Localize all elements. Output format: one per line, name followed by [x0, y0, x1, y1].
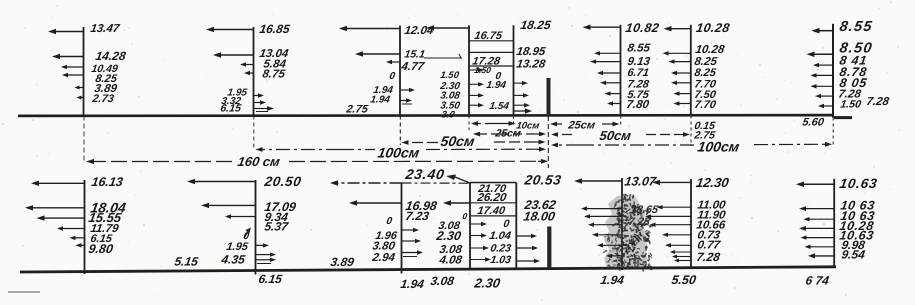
svg-text:7.28: 7.28 [628, 216, 652, 228]
station P4 top right vertical [513, 25, 515, 126]
station P4 top box lines [469, 41, 514, 66]
station P6 top velocity arrows [663, 26, 691, 106]
svg-text:4.08: 4.08 [438, 255, 464, 267]
station P4 bottom top arrow [446, 175, 470, 184]
station P3 bottom vertical [401, 183, 403, 274]
station P2 bottom value labels [174, 174, 303, 268]
svg-text:10.63: 10.63 [839, 176, 879, 191]
svg-text:0.23: 0.23 [490, 243, 512, 255]
dimension 50cm left [402, 133, 546, 149]
station P5 bottom value labels [624, 175, 660, 228]
station P3 bottom velocity arrows [330, 180, 423, 256]
station P1 top vertical [83, 27, 86, 163]
svg-text:50cм: 50cм [440, 133, 477, 149]
station P2 top velocity arrows [206, 27, 274, 112]
station P2 bottom vertical [255, 180, 257, 275]
station P3 top vertical [399, 26, 401, 146]
station P6 bottom value labels [695, 175, 731, 264]
svg-text:2.73: 2.73 [91, 93, 116, 105]
svg-text:1.95: 1.95 [226, 241, 250, 253]
dimension 50cm right [551, 128, 690, 143]
dimension 10cm [471, 120, 540, 131]
svg-text:1.04: 1.04 [489, 230, 512, 242]
svg-text:3.08: 3.08 [430, 274, 456, 288]
svg-text:2.94: 2.94 [371, 252, 397, 264]
station P4 top inner labels [472, 30, 504, 67]
station P3 top value labels [345, 25, 435, 115]
station P4 top left stack labels [439, 70, 462, 120]
svg-text:7.70: 7.70 [694, 99, 718, 111]
svg-text:10.28: 10.28 [695, 44, 726, 56]
station P4 top small arrows right line [514, 81, 533, 114]
svg-text:5.15: 5.15 [174, 255, 200, 269]
station P7 bottom vertical [833, 179, 835, 268]
svg-text:18.00: 18.00 [523, 210, 556, 224]
svg-text:18.65: 18.65 [630, 204, 660, 216]
station P4 bottom inner small arrows [470, 222, 491, 262]
svg-text:160 cм: 160 cм [237, 154, 282, 169]
station P7 bottom velocity arrows [796, 182, 834, 259]
station P5 bottom vertical [621, 178, 623, 270]
svg-text:8.55: 8.55 [838, 19, 874, 35]
svg-text:3.80: 3.80 [372, 241, 397, 253]
station P3 bottom value labels [330, 166, 469, 269]
svg-text:6.15: 6.15 [258, 272, 284, 286]
svg-text:20.53: 20.53 [523, 173, 563, 188]
wall top extension [547, 116, 549, 168]
svg-text:3.89: 3.89 [330, 255, 356, 269]
svg-text:1.94: 1.94 [400, 277, 426, 291]
svg-text:1.50: 1.50 [440, 70, 461, 81]
station P2 top value labels [220, 22, 291, 114]
station P5 bottom velocity arrows [574, 178, 622, 258]
dimension 100cm left [256, 145, 547, 161]
station P5 top value labels [625, 21, 661, 111]
station P4 bottom base labels [430, 274, 502, 290]
dimension 25cm right [550, 120, 620, 132]
station P3-P4 bottom connector line [402, 182, 471, 184]
station P5 top vertical [620, 25, 622, 127]
station P7 base label [802, 117, 826, 129]
svg-text:8.25: 8.25 [694, 67, 718, 79]
station P4 top left vertical [468, 25, 470, 130]
station P1 bottom velocity arrows [25, 181, 85, 248]
svg-text:13.47: 13.47 [90, 23, 121, 35]
svg-text:23.40: 23.40 [404, 166, 447, 182]
svg-text:25cм: 25cм [494, 128, 522, 140]
svg-text:12.30: 12.30 [695, 175, 731, 190]
svg-text:15.1: 15.1 [404, 49, 426, 61]
svg-text:7.28: 7.28 [866, 96, 891, 108]
station P5 bottom smudge blob [604, 194, 648, 268]
svg-text:100cм: 100cм [697, 139, 742, 155]
station P6 bottom base label [671, 273, 698, 287]
flume wall bottom [547, 227, 551, 270]
svg-text:2.30: 2.30 [473, 276, 502, 291]
station P4 bottom left stack labels [435, 220, 464, 266]
svg-text:1.03: 1.03 [490, 254, 512, 266]
station P1 top velocity arrows [48, 29, 84, 100]
svg-text:7.28: 7.28 [696, 250, 722, 264]
svg-text:9.54: 9.54 [841, 248, 867, 262]
station P5 top velocity arrows [583, 25, 621, 106]
station P4 bottom right vertical [515, 183, 517, 270]
svg-text:6 74: 6 74 [805, 274, 831, 288]
bottom channel bed line [8, 267, 836, 292]
svg-text:4.77: 4.77 [400, 61, 426, 73]
station P1 bottom value labels [88, 175, 128, 256]
dimension 100cm right [551, 139, 832, 155]
station P4 bottom left vertical [469, 183, 471, 271]
station P4 bottom right labels [523, 173, 563, 224]
flume wall top [547, 78, 551, 116]
svg-text:16.13: 16.13 [91, 175, 124, 189]
station P4 bottom inner right labels [489, 218, 512, 266]
station P6 bottom vertical [690, 179, 692, 269]
station P6 base labels [693, 120, 716, 141]
svg-text:8.75: 8.75 [262, 69, 287, 81]
svg-text:50cм: 50cм [599, 128, 633, 143]
svg-text:10.28: 10.28 [695, 21, 731, 35]
svg-text:13.07: 13.07 [624, 175, 658, 189]
svg-text:2.75: 2.75 [345, 104, 370, 116]
station P1 bottom vertical [84, 180, 86, 274]
station P4 bottom right small arrows [516, 234, 540, 264]
station P7 top vertical [832, 24, 834, 146]
svg-text:1.94: 1.94 [486, 80, 508, 91]
dimension 160cm [86, 154, 548, 169]
station P4 top small arrows left line [469, 68, 484, 108]
svg-text:1.54: 1.54 [489, 101, 511, 112]
svg-text:1.50: 1.50 [840, 99, 862, 111]
svg-text:18.95: 18.95 [516, 46, 547, 58]
station P4 top arrow [426, 25, 469, 30]
svg-text:26.20: 26.20 [476, 192, 508, 204]
svg-text:1.94: 1.94 [600, 273, 626, 287]
svg-text:13.28: 13.28 [516, 59, 547, 71]
svg-text:5.37: 5.37 [264, 220, 291, 234]
svg-text:9.80: 9.80 [88, 242, 115, 256]
station P7 top value labels [838, 19, 891, 110]
station P7 top velocity arrows [807, 28, 834, 108]
svg-text:1.94: 1.94 [370, 95, 392, 106]
station P4 bottom mid arrow [443, 200, 470, 205]
svg-text:5.60: 5.60 [802, 117, 826, 129]
station P4 top mid labels [474, 65, 510, 112]
svg-text:20.50: 20.50 [263, 174, 303, 189]
svg-text:16.85: 16.85 [259, 22, 291, 36]
station P2 top vertical [253, 27, 255, 148]
station P4 bottom inner labels [476, 183, 508, 217]
svg-text:10.82: 10.82 [625, 21, 661, 35]
svg-text:5.50: 5.50 [671, 273, 698, 287]
station P4 top right labels [516, 18, 552, 70]
svg-text:7.23: 7.23 [405, 209, 431, 223]
top channel bed line [18, 115, 852, 118]
station P7 bottom base label [805, 274, 831, 288]
station P6 top value labels [694, 21, 731, 111]
svg-text:16.75: 16.75 [474, 30, 504, 42]
svg-text:25cм: 25cм [567, 120, 596, 132]
dimension 25cm left [473, 128, 546, 140]
station P2 bottom velocity arrows [187, 179, 276, 264]
station P7 bottom value labels [839, 176, 879, 261]
svg-text:18.25: 18.25 [520, 18, 552, 32]
svg-text:100cм: 100cм [377, 145, 422, 161]
svg-text:8.55: 8.55 [627, 43, 652, 55]
station P3 top velocity arrows [339, 26, 462, 104]
svg-text:14.28: 14.28 [95, 49, 127, 63]
svg-text:1.50: 1.50 [474, 65, 492, 75]
station P6 top vertical [690, 25, 692, 146]
svg-text:2.30: 2.30 [435, 229, 463, 243]
svg-text:7.80: 7.80 [626, 99, 651, 111]
station P5 bottom base label [600, 273, 626, 287]
station P6 bottom velocity arrows [645, 180, 691, 263]
svg-text:17.40: 17.40 [477, 205, 507, 217]
svg-text:3.0: 3.0 [441, 110, 457, 121]
station P4 bottom box lines [470, 183, 516, 216]
svg-text:6.15: 6.15 [220, 103, 242, 115]
svg-text:6.71: 6.71 [627, 67, 650, 79]
station P2 bottom base label [258, 272, 284, 286]
station P3 bottom base label [400, 277, 426, 291]
station P1 top value labels [90, 23, 127, 105]
